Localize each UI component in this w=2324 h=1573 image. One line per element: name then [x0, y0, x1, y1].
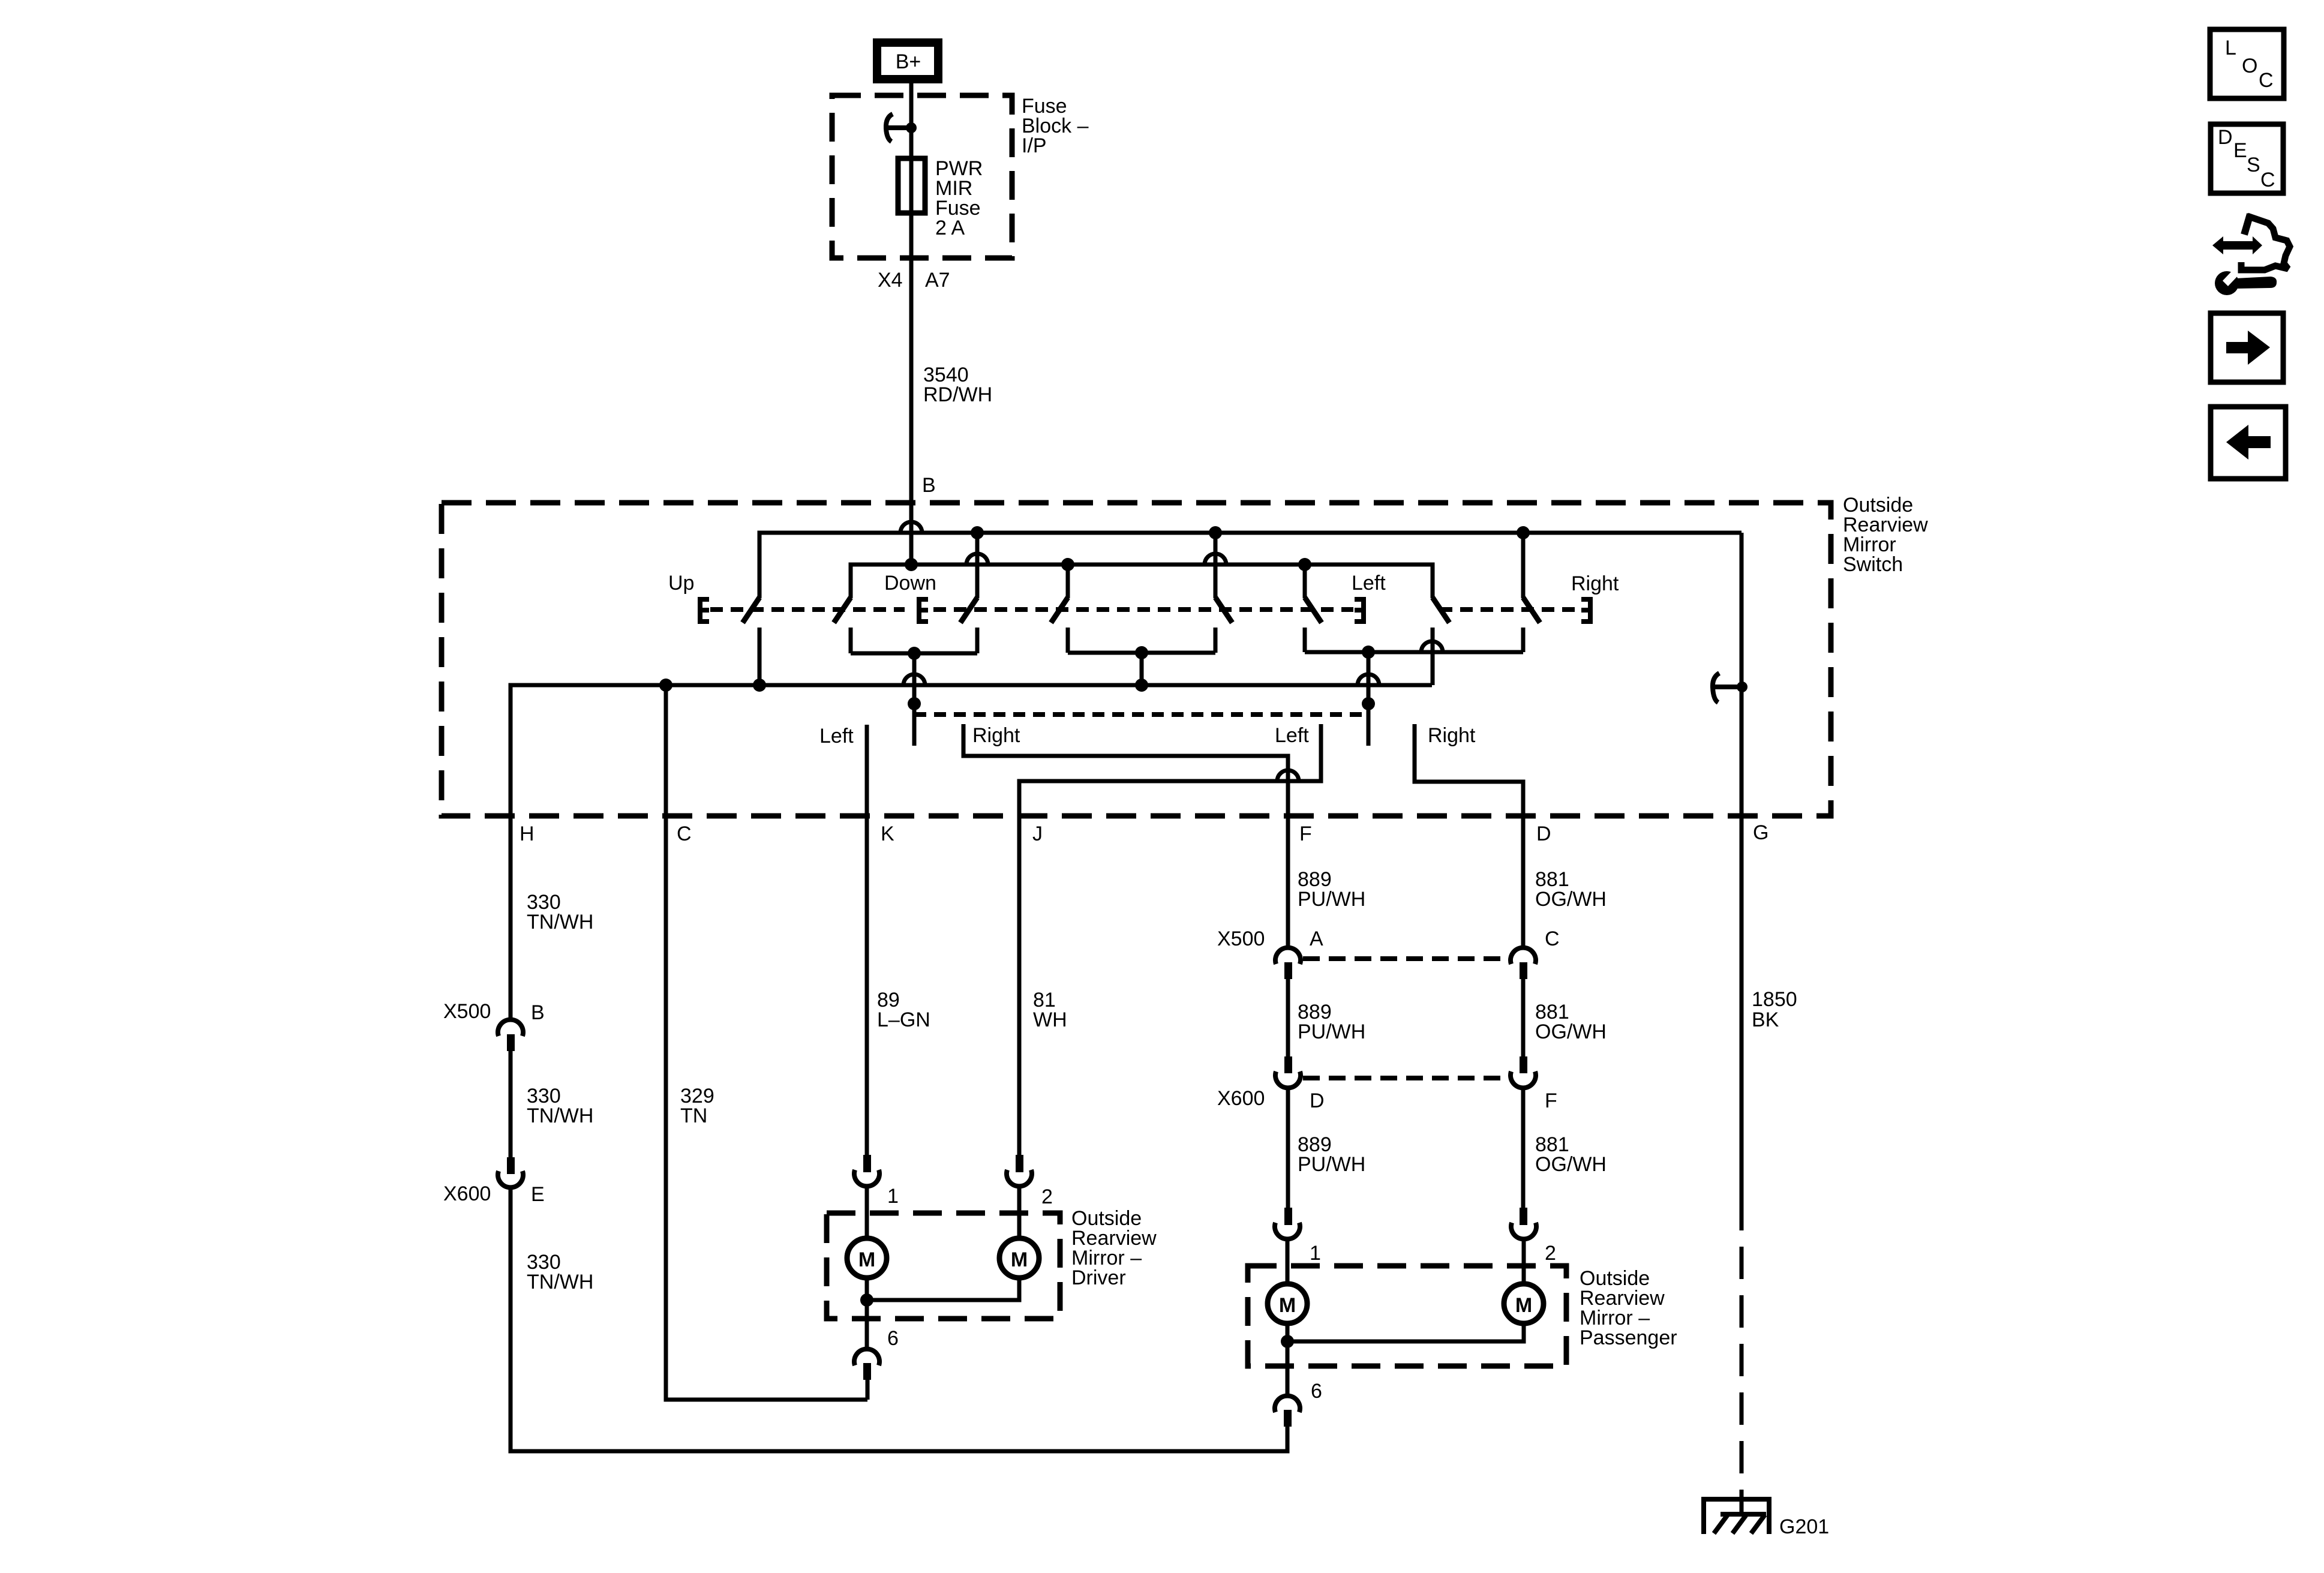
junction dot line1 contact8 feed — [1517, 526, 1530, 539]
svg-text:C: C — [677, 822, 692, 845]
svg-text:M: M — [858, 1248, 875, 1271]
driver pin 1 female arc — [854, 1170, 879, 1186]
fixed contact stub 8 — [1521, 628, 1526, 652]
hop of contact5 feed over line 2 — [1205, 554, 1226, 565]
hop of center wire 6-8 over bus — [1358, 674, 1379, 685]
svg-text:Left: Left — [819, 725, 854, 748]
svg-text:C: C — [1545, 927, 1560, 950]
wire feed line 2 — [851, 565, 1433, 598]
wire U link 4-5 to bus — [1140, 653, 1144, 685]
wire output Right to F — [963, 724, 1288, 948]
passenger pin 2 male bar — [1520, 1208, 1527, 1225]
svg-text:B: B — [922, 474, 936, 497]
svg-text:K: K — [881, 822, 894, 845]
wire line2 to contact 4 — [1066, 565, 1070, 598]
junction dot U4-5 wire to bus — [1135, 679, 1148, 692]
junction dot B to line 2 — [905, 558, 918, 571]
wire driver pin 6 to C — [866, 1380, 870, 1400]
svg-text:F: F — [1545, 1089, 1557, 1112]
U link under contacts 2-3 — [851, 652, 977, 656]
outside rearview mirror switch dashed box — [442, 503, 1831, 816]
junction dot U link 2-3 — [908, 647, 921, 660]
label 881 OG/WH (lower) — [1535, 1133, 1607, 1176]
svg-text:H: H — [520, 822, 535, 845]
connector X600 F female arc — [1511, 1071, 1536, 1088]
svg-text:TN/WH: TN/WH — [527, 1271, 593, 1293]
connector X600 D female arc — [1275, 1071, 1301, 1088]
driver pin 6 male bar — [863, 1363, 871, 1380]
fixed contact stub 5 — [1214, 628, 1218, 653]
motor M driver left — [847, 1238, 887, 1278]
connector X500 C female arc — [1511, 948, 1536, 964]
hop of U link 6-8 over stub 7 — [1421, 641, 1443, 652]
svg-text:Switch: Switch — [1843, 553, 1903, 576]
wire 3540 RD/WH from fuse A7 down to switch B — [909, 258, 914, 565]
svg-text:PU/WH: PU/WH — [1298, 1020, 1365, 1043]
icon box arrow left — [2211, 407, 2286, 479]
svg-text:M: M — [1515, 1294, 1532, 1317]
junction dot bus to stub1 — [753, 679, 766, 692]
svg-text:M: M — [1279, 1294, 1296, 1317]
wire C to driver pin 6 — [666, 685, 867, 1400]
svg-text:TN/WH: TN/WH — [527, 911, 593, 933]
wire G dashed segment to ground — [1740, 1230, 1744, 1514]
junction dot line2 contact4 feed — [1061, 558, 1074, 571]
icon box LOC — [2210, 29, 2284, 98]
detent symbol reversed E at Right — [1581, 597, 1592, 624]
junction dot driver motors — [860, 1293, 873, 1307]
wire output K — [865, 725, 869, 1155]
svg-text:B+: B+ — [896, 50, 921, 73]
svg-text:Up: Up — [668, 572, 694, 595]
svg-text:Passenger: Passenger — [1580, 1326, 1677, 1349]
fixed contact stub 6 — [1303, 628, 1307, 652]
passenger pin 1 female arc — [1275, 1223, 1300, 1239]
label Outside Rearview Mirror - Driver — [1071, 1207, 1157, 1289]
wire driver motors common — [867, 1277, 1019, 1300]
switch contact blade 3 — [960, 598, 977, 623]
detent symbol E at Up — [698, 597, 709, 624]
junction dot at fuse tap — [906, 122, 917, 133]
svg-text:RD/WH: RD/WH — [923, 383, 992, 406]
label PWR MIR Fuse 2 A — [935, 157, 983, 239]
connector X500 C male bar — [1520, 962, 1527, 979]
U link under contacts 4-5 — [1068, 651, 1215, 655]
hop of wire B over line 1 — [900, 522, 922, 533]
svg-text:E: E — [2233, 139, 2247, 162]
fixed contact stub 7 — [1431, 628, 1435, 685]
svg-text:M: M — [1011, 1248, 1028, 1271]
switch contact blade 4 — [1051, 598, 1068, 623]
svg-text:6: 6 — [887, 1327, 899, 1350]
passenger pin 6 female arc — [1275, 1396, 1300, 1412]
fixed contact stub 3 — [975, 628, 980, 653]
driver pin 2 male bar — [1016, 1155, 1023, 1172]
connector X500 A-C dashed link — [1303, 956, 1510, 961]
label 3540 RD/WH — [923, 364, 992, 406]
junction dot bus to C — [659, 679, 672, 692]
svg-text:1850: 1850 — [1752, 988, 1797, 1011]
hop of center wire 2-3 over bus — [903, 674, 925, 685]
junction dot mech link right — [1362, 697, 1375, 710]
connector X500 B male bar — [507, 1034, 515, 1051]
motor M passenger right — [1504, 1284, 1544, 1323]
bus tap hook on wire G — [1713, 673, 1719, 703]
detent symbol E at Down — [917, 597, 928, 624]
fuse PWR MIR Fuse 2A — [898, 158, 925, 213]
svg-text:PU/WH: PU/WH — [1298, 1153, 1365, 1176]
wire line2 to contact 6 — [1303, 565, 1307, 598]
svg-text:D: D — [1310, 1089, 1325, 1112]
label 889 PU/WH (middle) — [1298, 1001, 1365, 1043]
driver pin 6 female arc — [854, 1349, 879, 1365]
svg-text:C: C — [2260, 169, 2275, 191]
label 881 OG/WH (upper) — [1535, 868, 1607, 911]
wire pin2 to motor M passenger right — [1522, 1240, 1526, 1284]
label 330 TN/WH (upper) — [527, 891, 593, 933]
junction dot line1 contact5 feed — [1209, 526, 1222, 539]
icon mirror adjust with wrench — [2212, 214, 2290, 295]
wire line1 to contact 8 — [1521, 533, 1526, 598]
svg-text:Right: Right — [1571, 572, 1619, 595]
connector X500 A male bar — [1284, 962, 1292, 979]
svg-text:OG/WH: OG/WH — [1535, 1020, 1607, 1043]
svg-text:D: D — [2218, 126, 2233, 149]
svg-text:G201: G201 — [1779, 1515, 1829, 1538]
svg-text:Left: Left — [1275, 724, 1309, 747]
mechanical link dashed line of output row — [914, 712, 1368, 717]
svg-text:X500: X500 — [443, 1000, 491, 1023]
driver mirror dashed box — [827, 1213, 1060, 1319]
mechanical link dashed line Up-E to Down-E — [710, 607, 905, 612]
wire passenger motors common — [1287, 1323, 1524, 1341]
connector X600 E female arc — [498, 1171, 523, 1187]
label 881 OG/WH (middle) — [1535, 1001, 1607, 1043]
fuse block I/P dashed box — [832, 95, 1012, 258]
svg-text:X600: X600 — [443, 1182, 491, 1205]
label 1850 BK — [1752, 988, 1797, 1031]
junction dot G tap — [1737, 682, 1747, 692]
svg-text:WH: WH — [1033, 1008, 1067, 1031]
switch contact blade 2 — [834, 598, 851, 623]
connector X500 B female arc — [498, 1020, 523, 1036]
label Outside Rearview Mirror Switch — [1843, 494, 1928, 576]
svg-text:Left: Left — [1352, 572, 1386, 595]
wire G from line 1 down — [1740, 533, 1744, 1230]
wire line1 to contact 5 — [1214, 533, 1218, 598]
svg-text:E: E — [531, 1183, 545, 1206]
switch contact blade 7 — [1433, 598, 1449, 623]
svg-text:PU/WH: PU/WH — [1298, 888, 1365, 911]
svg-text:1: 1 — [1310, 1242, 1321, 1265]
connector X600 D-F dashed link — [1303, 1076, 1510, 1080]
label 889 PU/WH (lower) — [1298, 1133, 1365, 1176]
junction dot U link 6-8 — [1362, 646, 1375, 659]
ground symbol G201 — [1704, 1499, 1769, 1534]
label Outside Rearview Mirror - Passenger — [1580, 1267, 1677, 1349]
svg-text:TN/WH: TN/WH — [527, 1104, 593, 1127]
junction dot U link 4-5 — [1135, 646, 1148, 659]
svg-text:BK: BK — [1752, 1008, 1779, 1031]
svg-text:F: F — [1299, 822, 1312, 845]
wire feed line 1 — [759, 533, 1742, 598]
switch contact blade 5 — [1215, 598, 1232, 623]
svg-text:A: A — [1310, 927, 1323, 950]
mechanical link dashed line contact7 to Right-E — [1440, 607, 1580, 612]
connector X600 E male bar — [507, 1157, 515, 1174]
center wire from U link 2-3 down — [912, 653, 917, 746]
label 81 WH — [1033, 989, 1067, 1031]
label 329 TN — [680, 1085, 714, 1127]
driver pin 2 female arc — [1007, 1170, 1032, 1186]
driver pin 1 male bar — [863, 1155, 871, 1172]
label Fuse Block - I/P — [1022, 95, 1089, 157]
motor M driver right — [999, 1238, 1039, 1278]
svg-text:OG/WH: OG/WH — [1535, 1153, 1607, 1176]
wire driver common to pin 6 — [865, 1300, 869, 1347]
switch contact blade 1 — [743, 598, 759, 623]
passenger pin 6 male bar — [1284, 1410, 1292, 1427]
svg-text:A7: A7 — [925, 269, 950, 292]
junction dot line1 contact3 feed — [971, 526, 984, 539]
bus wire of switch — [511, 685, 1432, 1019]
svg-text:I/P: I/P — [1022, 134, 1047, 157]
label 89 L-GN — [877, 989, 930, 1031]
svg-text:Right: Right — [1428, 724, 1476, 747]
center wire from U link 6-8 down — [1367, 652, 1371, 746]
svg-text:J: J — [1032, 822, 1043, 845]
svg-text:X500: X500 — [1217, 927, 1265, 950]
detent symbol reversed E at Left — [1355, 597, 1365, 624]
junction dot passenger motors — [1281, 1335, 1294, 1348]
mechanical link dashed line Down-E to Left-E — [933, 607, 1353, 612]
svg-text:OG/WH: OG/WH — [1535, 888, 1607, 911]
svg-text:Driver: Driver — [1071, 1266, 1126, 1289]
icon box DESC — [2211, 124, 2283, 193]
wire B+ into fuse block — [909, 83, 914, 258]
label 889 PU/WH (upper) — [1298, 868, 1365, 911]
wire pin1 to motor M driver left — [865, 1187, 869, 1239]
wire line1 to contact 3 — [975, 533, 980, 598]
fixed contact stub 2 — [849, 628, 853, 653]
hop of J wire over F wire — [1277, 770, 1299, 781]
passenger mirror dashed box — [1248, 1266, 1566, 1366]
connector X600 F male bar — [1520, 1056, 1527, 1073]
connector X500 A female arc — [1275, 948, 1301, 964]
svg-text:X4: X4 — [878, 269, 903, 292]
svg-text:6: 6 — [1311, 1380, 1322, 1403]
junction dot line2 contact6 feed — [1298, 558, 1311, 571]
svg-text:2: 2 — [1545, 1242, 1556, 1265]
junction dot mech link left — [908, 697, 921, 710]
label 330 TN/WH (middle) — [527, 1085, 593, 1127]
passenger pin 1 male bar — [1284, 1208, 1292, 1225]
passenger pin 2 female arc — [1511, 1223, 1536, 1239]
svg-text:2: 2 — [1041, 1185, 1053, 1208]
wire H between connectors X500 B and X600 E — [509, 1051, 513, 1157]
motor M passenger left — [1268, 1284, 1307, 1323]
svg-text:B: B — [531, 1001, 545, 1024]
svg-text:S: S — [2247, 154, 2260, 176]
svg-text:O: O — [2242, 55, 2257, 77]
power symbol B+ — [873, 38, 942, 83]
svg-text:L–GN: L–GN — [877, 1008, 930, 1031]
svg-text:X600: X600 — [1217, 1087, 1265, 1110]
hop of contact3 feed over line 2 — [966, 554, 988, 565]
fixed contact stub 4 — [1066, 628, 1070, 653]
wire H lower segment to passenger pin 6 — [511, 1188, 1287, 1451]
svg-text:Right: Right — [972, 724, 1020, 747]
svg-text:D: D — [1536, 822, 1551, 845]
svg-text:1: 1 — [887, 1185, 899, 1208]
icon box arrow right — [2211, 313, 2283, 382]
wire pin2 to motor M driver right — [1017, 1187, 1022, 1239]
svg-text:2 A: 2 A — [935, 217, 965, 239]
connector X600 D male bar — [1284, 1056, 1292, 1073]
wire D between connectors — [1521, 979, 1526, 1056]
switch contact blade 8 — [1523, 598, 1540, 623]
switch contact blade 6 — [1305, 598, 1322, 623]
wire F between connectors — [1286, 979, 1290, 1056]
wire passenger common to pin 6 — [1286, 1341, 1290, 1394]
svg-text:Down: Down — [884, 572, 936, 595]
fixed contact stub 1 — [758, 628, 762, 685]
bus tap hook inside fuse block — [886, 114, 893, 142]
wire output Right to D — [1415, 724, 1523, 948]
wire output Left to J — [1019, 724, 1321, 1155]
U link under contacts 6-8 — [1305, 650, 1523, 655]
svg-text:L: L — [2225, 37, 2236, 59]
svg-text:G: G — [1753, 821, 1768, 844]
label 330 TN/WH (lower) — [527, 1251, 593, 1293]
svg-text:TN: TN — [680, 1104, 707, 1127]
wire pin1 to motor M passenger left — [1286, 1240, 1290, 1284]
svg-text:C: C — [2259, 69, 2274, 92]
